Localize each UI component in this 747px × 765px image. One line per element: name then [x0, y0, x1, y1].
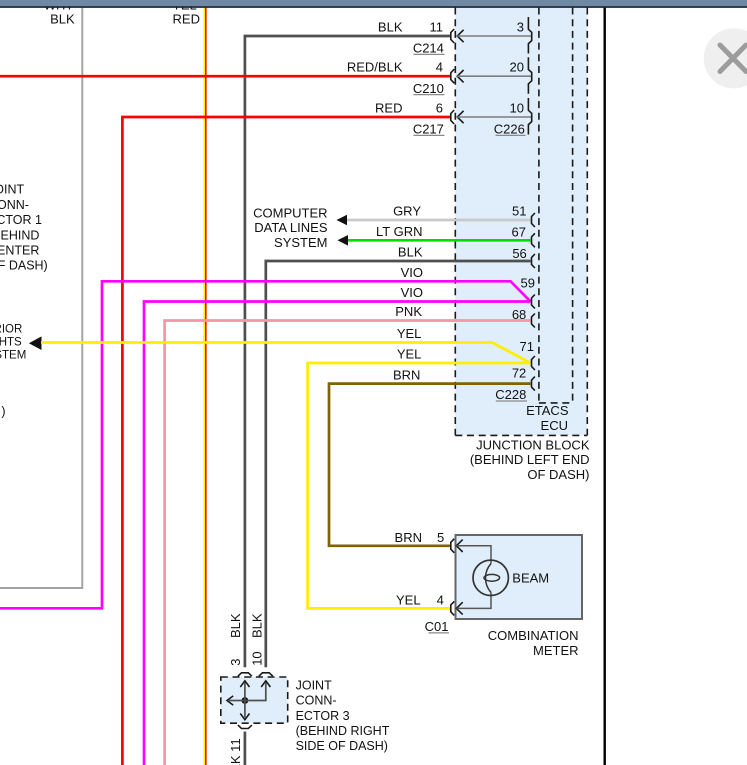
label JOINT CONNECTOR 3 (BEHIND RIGHT SIDE OF DASH): [296, 678, 390, 753]
svg-text:C214: C214: [413, 41, 444, 56]
label COMPUTER DATA LINES SYSTEM: [253, 206, 328, 250]
svg-text:SYSTEM: SYSTEM: [0, 349, 26, 361]
wire RED to C217-6: [122, 117, 450, 765]
svg-text:DATA LINES: DATA LINES: [254, 220, 328, 235]
svg-text:): ): [1, 405, 5, 419]
rotated label BLK (pin 10 wire): [250, 613, 265, 638]
svg-text:BLK: BLK: [398, 245, 423, 260]
wire BLK pin 56 down to joint connector 3: [266, 261, 531, 667]
meter pin 4 connector: [451, 593, 491, 616]
connector C214 pin 11 symbols: [451, 17, 532, 54]
svg-text:GRY: GRY: [393, 204, 421, 219]
ETACS pin 51 connector arc: [532, 213, 535, 227]
svg-text:(BEHIND RIGHT: (BEHIND RIGHT: [296, 724, 390, 738]
svg-text:BLK: BLK: [378, 19, 403, 34]
combination meter box: [456, 535, 583, 619]
ETACS pin 59 label: [521, 276, 535, 291]
svg-text:BEAM: BEAM: [512, 570, 549, 585]
svg-text:BRN: BRN: [395, 530, 422, 545]
svg-text:VIO: VIO: [401, 265, 423, 280]
wire PNK to pin 68: [165, 321, 531, 765]
svg-text:3: 3: [228, 659, 243, 666]
ETACS pin 68 connector arc: [532, 314, 535, 328]
rotated label BLK 11 (exit wire): [228, 738, 243, 765]
svg-text:56: 56: [512, 246, 526, 261]
ETACS pin 72 connector arc: [532, 377, 535, 391]
wire GRY to pin 51: [346, 219, 531, 222]
svg-text:RED/BLK: RED/BLK: [347, 60, 403, 75]
label BEAM: [512, 570, 549, 585]
svg-text:YEL: YEL: [397, 347, 422, 362]
svg-text:C210: C210: [413, 81, 444, 96]
label ETACS ECU: [526, 403, 569, 433]
svg-text:CONN-: CONN-: [0, 198, 29, 212]
svg-text:C226: C226: [494, 122, 525, 137]
wire VIO lower to pin 59: [144, 302, 531, 765]
svg-text:C228: C228: [495, 387, 526, 402]
wire LT GRN to pin 67: [348, 239, 531, 242]
wire label YEL: [397, 326, 422, 341]
wire YEL upper from interior lights to pin 71: [41, 343, 531, 364]
connector C01 label: [425, 619, 449, 634]
stray text fragment: [1, 405, 5, 419]
ETACS pin 68 label: [512, 307, 526, 322]
ETACS ECU inner dashed box: [539, 8, 573, 403]
meter pin 5 connector: [451, 539, 491, 564]
labels C214 pin 11: [378, 19, 524, 55]
wire label BLK: [398, 245, 423, 260]
svg-text:LT GRN: LT GRN: [376, 224, 422, 239]
svg-text:VIO: VIO: [401, 285, 423, 300]
label INTERIOR LIGHTS SYSTEM: [0, 323, 26, 361]
wire VIO upper to pin 59: [0, 281, 531, 608]
svg-text:ECTOR 3: ECTOR 3: [296, 709, 350, 723]
svg-text:SIDE OF DASH): SIDE OF DASH): [296, 739, 388, 753]
wire YEL lower from pin 71 to combination meter pin 4: [308, 363, 531, 608]
rotated label BLK (pin 3 wire): [228, 613, 243, 638]
junction block (outer dashed box, light blue): [455, 8, 587, 436]
ETACS pin 67 label: [512, 225, 526, 240]
arrow to computer data lines (GRY): [337, 215, 348, 226]
svg-text:20: 20: [510, 60, 524, 75]
svg-text:5: 5: [437, 530, 444, 545]
ETACS pin 51 label: [512, 203, 526, 218]
labels C217 pin 6: [375, 100, 524, 136]
wire label BRN: [393, 367, 420, 382]
svg-text:CONN-: CONN-: [296, 694, 337, 708]
connector C228 label: [495, 387, 527, 402]
svg-text:3: 3: [517, 19, 524, 34]
svg-text:10: 10: [510, 100, 524, 115]
svg-text:4: 4: [437, 593, 444, 608]
svg-text:COMPUTER: COMPUTER: [253, 206, 327, 221]
cut-off label YEL: [172, 0, 197, 12]
connector C210 pin 4 symbols: [451, 57, 532, 93]
label RED (top wire): [173, 11, 200, 26]
joint connector 1 box edge (gray): [0, 8, 82, 589]
svg-text:LIGHTS: LIGHTS: [0, 336, 22, 348]
svg-text:JUNCTION BLOCK: JUNCTION BLOCK: [476, 438, 590, 453]
svg-text:JOINT: JOINT: [296, 678, 332, 692]
svg-text:COMBINATION: COMBINATION: [488, 628, 579, 643]
wire BLK from C214-11 down to joint connector 3: [245, 36, 450, 667]
svg-text:BRN: BRN: [393, 367, 420, 382]
svg-text:BLK 11: BLK 11: [228, 738, 243, 765]
svg-text:OF DASH): OF DASH): [0, 259, 48, 273]
svg-text:INTERIOR: INTERIOR: [0, 323, 22, 335]
wire label VIO: [401, 265, 423, 280]
ETACS pin 71 label: [520, 339, 534, 354]
svg-text:72: 72: [512, 366, 526, 381]
wire YEL/RED vertical: [204, 8, 206, 765]
svg-text:10: 10: [250, 651, 265, 665]
wire label PNK: [395, 304, 422, 319]
wire label LT GRN: [376, 224, 422, 239]
svg-text:OF DASH): OF DASH): [527, 467, 589, 482]
svg-text:BLK: BLK: [228, 613, 243, 638]
svg-text:JOINT: JOINT: [0, 183, 24, 197]
arrow to computer data lines (LT GRN): [338, 235, 349, 246]
svg-text:SYSTEM: SYSTEM: [274, 235, 327, 250]
svg-text:ECU: ECU: [541, 418, 568, 433]
svg-text:C217: C217: [413, 122, 444, 137]
svg-text:CENTER: CENTER: [0, 244, 39, 258]
svg-text:51: 51: [512, 203, 526, 218]
labels C210 pin 4: [347, 60, 524, 96]
svg-text:6: 6: [436, 100, 443, 115]
svg-text:67: 67: [512, 225, 526, 240]
wire BLK 11 below joint connector 3: [244, 732, 247, 765]
joint connector 3 box: [221, 677, 288, 723]
svg-text:C01: C01: [425, 619, 449, 634]
arrow to interior lights system: [29, 336, 42, 350]
wire label YEL: [397, 347, 422, 362]
label JUNCTION BLOCK (BEHIND LEFT END OF DASH): [470, 438, 590, 482]
rotated pin 3: [228, 659, 243, 666]
svg-text:METER: METER: [533, 643, 579, 658]
svg-text:RED: RED: [173, 11, 200, 26]
svg-text:BLK: BLK: [250, 613, 265, 638]
joint connector 3 internal junction: [227, 681, 270, 720]
top toolbar bar: [0, 0, 747, 7]
ETACS pin 72 label: [512, 366, 526, 381]
rotated pin 10: [250, 651, 265, 665]
svg-text:YEL: YEL: [396, 593, 421, 608]
label JOINT CONNECTOR 1 (BEHIND CENTER OF DASH): [0, 183, 48, 273]
joint connector 3 exit arc pin 11: [238, 725, 252, 728]
cut-off label WHT: [44, 0, 74, 12]
svg-text:59: 59: [521, 276, 535, 291]
joint connector 3 entry arc pin 10: [259, 673, 273, 676]
svg-text:(BEHIND LEFT END: (BEHIND LEFT END: [470, 452, 590, 467]
connector C217 pin 6 symbols: [451, 98, 532, 135]
close button: [704, 28, 747, 88]
solid black frame line: [604, 8, 606, 765]
svg-text:ETACS: ETACS: [526, 403, 569, 418]
svg-text:71: 71: [520, 339, 534, 354]
lamp BEAM bulb: [473, 560, 508, 595]
label COMBINATION METER: [488, 628, 579, 658]
svg-text:RED: RED: [375, 100, 402, 115]
wire label GRY: [393, 204, 421, 219]
wire label VIO: [401, 285, 423, 300]
connector C226 label: [494, 122, 526, 137]
ETACS pin 67 connector arc: [532, 233, 535, 247]
svg-text:PNK: PNK: [395, 304, 422, 319]
svg-text:4: 4: [436, 60, 443, 75]
label BLK (top left wire): [50, 11, 75, 26]
meter pin labels: [395, 530, 445, 608]
wire RED/BLK to C210-4: [0, 75, 450, 78]
svg-text:ECTOR 1: ECTOR 1: [0, 213, 42, 227]
wire BRN from pin 72 to combination meter pin 5: [329, 384, 531, 546]
joint connector 3 entry arc pin 3: [238, 673, 252, 676]
svg-text:(BEHIND: (BEHIND: [0, 228, 39, 242]
svg-text:YEL: YEL: [397, 326, 422, 341]
ETACS pin 71 connector arc: [532, 356, 535, 370]
svg-text:68: 68: [512, 307, 526, 322]
ETACS pin 56 label: [512, 246, 526, 261]
ETACS pin 59 connector arc: [532, 295, 535, 309]
svg-text:11: 11: [430, 19, 444, 34]
ETACS pin 56 connector arc: [532, 254, 535, 268]
svg-text:BLK: BLK: [50, 11, 75, 26]
